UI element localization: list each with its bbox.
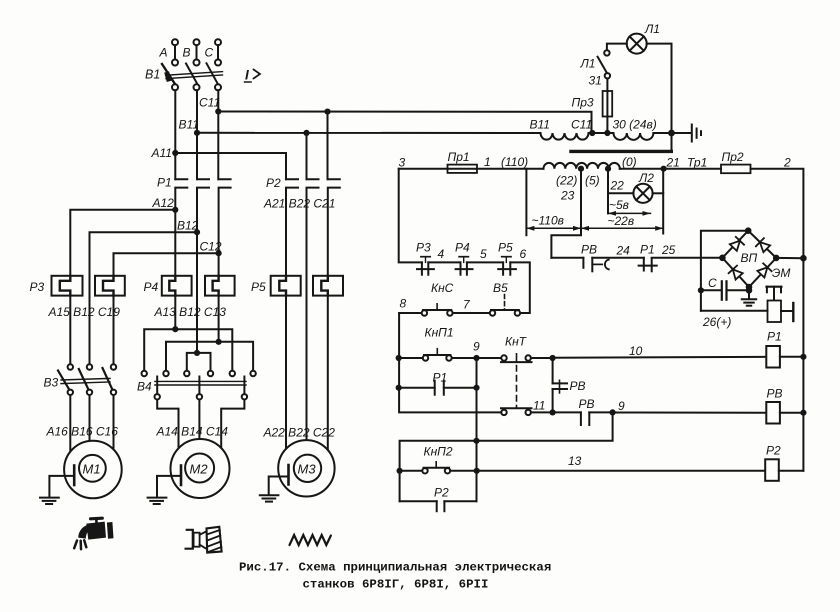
wire A22 (285, 296, 287, 450)
diode D4 lower-right (757, 263, 771, 277)
svg-text:ВП: ВП (741, 251, 758, 265)
svg-text:3: 3 (399, 156, 406, 170)
wire phase C continues (218, 253, 220, 276)
svg-text:4: 4 (438, 247, 445, 261)
diode D3 lower-left (729, 266, 743, 280)
node 24V tap C11 (589, 130, 595, 136)
wire B4 fan C (166, 342, 253, 371)
wire node 7 (453, 312, 490, 314)
switch L1 top contact (604, 50, 609, 55)
wire B12 (90, 232, 198, 364)
svg-text:М3: М3 (298, 462, 317, 477)
contact P4 (456, 257, 473, 275)
wire A16 (69, 395, 71, 452)
fuse Pr1 (448, 165, 478, 173)
contact P1 hold (399, 381, 477, 395)
wire to chassis ground (653, 132, 690, 134)
pushbutton KnP1 (423, 349, 452, 361)
wire EM to plunger (781, 310, 792, 312)
wire lamp L1 left (607, 44, 627, 51)
node 9b (610, 409, 616, 415)
wire B16 (89, 395, 91, 441)
wire left control rail lower (399, 313, 501, 412)
node bridge minus (746, 287, 753, 294)
node rail bridge (800, 255, 807, 262)
svg-text:Р2: Р2 (766, 444, 781, 458)
icon coolant tap (74, 518, 113, 549)
wire A12 (70, 210, 175, 276)
svg-text:А13 В12 С13: А13 В12 С13 (154, 305, 227, 319)
svg-text:А16 В16 С16: А16 В16 С16 (46, 425, 119, 439)
svg-text:РВ: РВ (767, 387, 783, 401)
node A12 (172, 207, 178, 213)
electromagnet EM coil (768, 301, 782, 323)
svg-text:11: 11 (533, 399, 545, 413)
svg-text:~5в: ~5в (609, 198, 629, 212)
svg-text:А: А (159, 46, 168, 60)
wire KnT lower to node 11 (531, 411, 581, 413)
wire tap 22 drop (551, 169, 581, 258)
node B4 fan B (194, 350, 200, 356)
wire C11 to transformer (218, 112, 591, 134)
thermal element P5-C (box 6) (313, 276, 343, 296)
wire C12 (114, 253, 219, 276)
winding 24V section 30 (614, 133, 654, 140)
wire KnP1 to KnT (452, 357, 502, 359)
node 9 (473, 355, 479, 361)
node 13 (474, 468, 480, 474)
lamp L2 (633, 184, 652, 203)
wire phase A vertical (174, 90, 176, 179)
capacitor C (701, 281, 749, 299)
svg-text:А12: А12 (152, 196, 175, 210)
node C12 (216, 250, 222, 256)
svg-text:РВ: РВ (579, 397, 595, 411)
relay coil P2 (765, 459, 779, 481)
switch B1 blade pole A (162, 64, 175, 84)
wire tap 110 measure drop (525, 169, 527, 236)
switch B3 linkage bar (61, 378, 110, 383)
wire secondary to right rail (751, 169, 804, 471)
node line interlock (473, 438, 479, 444)
wire phase B continues (196, 232, 198, 353)
thermal element P4-A (box 3) (162, 276, 192, 296)
wire A14 (157, 400, 178, 450)
svg-text:26(+): 26(+) (702, 315, 731, 329)
node 24V tap Pr3 (604, 130, 610, 136)
svg-text:8: 8 (400, 297, 407, 311)
wire C19 box2 to B3 (113, 296, 115, 365)
svg-text:7: 7 (463, 298, 471, 312)
node B4 fan C (216, 339, 222, 345)
svg-text:РВ: РВ (581, 243, 597, 257)
ground M2 (148, 476, 181, 504)
wire left control rail upper (399, 169, 422, 263)
wire to node 9b (589, 411, 612, 413)
node tap 22 (578, 166, 584, 172)
wire C11 drop to P2 pole C (327, 112, 329, 180)
switch B3 blades (58, 368, 112, 389)
svg-text:9: 9 (473, 340, 480, 354)
svg-text:А14 В14 С14: А14 В14 С14 (156, 425, 229, 439)
svg-text:А15 В12 С19: А15 В12 С19 (48, 305, 121, 319)
svg-text:1: 1 (484, 155, 491, 169)
contactor P1 pole A (175, 179, 187, 210)
switch B1 lower contact A (172, 84, 178, 90)
diode D1 upper-left (730, 237, 744, 251)
terminal C (215, 39, 221, 65)
svg-text:В1: В1 (145, 68, 160, 82)
node 24V right (668, 130, 675, 137)
wire lamp L2 right (653, 192, 664, 194)
svg-text:КнС: КнС (431, 281, 454, 295)
dimension arrow ~110v (526, 226, 581, 231)
svg-text:I: I (245, 68, 249, 83)
wire line 24 (592, 257, 644, 259)
wire row KnS left (399, 312, 422, 314)
wire B14 (198, 400, 200, 441)
switch B4 linkage bar (155, 381, 246, 385)
svg-text:5: 5 (480, 247, 487, 261)
svg-text:Р5: Р5 (498, 241, 513, 255)
switch B1 lower contact B (194, 84, 200, 90)
wire C22 (327, 296, 329, 451)
svg-text:21: 21 (666, 156, 680, 170)
svg-text:Р1: Р1 (640, 243, 655, 257)
wire 6 to B5 (510, 262, 530, 313)
winding Tr1 secondary (544, 163, 620, 169)
svg-text:31: 31 (589, 74, 602, 88)
svg-text:(5): (5) (585, 174, 600, 188)
svg-text:С: С (708, 276, 717, 290)
diode D2 upper-right (756, 238, 770, 252)
svg-text:10: 10 (629, 344, 643, 358)
svg-text:9: 9 (618, 399, 625, 413)
thermal element P3-A (box 1) (52, 276, 83, 296)
wire C14 (221, 400, 244, 449)
contactor P1 pole B (197, 179, 209, 232)
node rail KnP2 (397, 468, 403, 474)
node tap 5 (605, 166, 611, 172)
switch B4 upper contacts (142, 371, 256, 376)
wire B11 drop to P2 pole B (306, 133, 308, 179)
dimension arrow ~22v (581, 226, 663, 231)
ground M3 (260, 477, 289, 502)
contact P1 (639, 258, 657, 272)
wire phase C vertical (217, 90, 219, 179)
node rail row 9 (396, 355, 402, 361)
svg-text:А11: А11 (151, 146, 172, 160)
svg-text:ЭМ: ЭМ (772, 266, 790, 280)
wire between taps (589, 132, 614, 134)
contact P5 (498, 257, 516, 275)
svg-text:А22 В22 С22: А22 В22 С22 (263, 426, 336, 440)
svg-text:2: 2 (783, 156, 791, 170)
svg-text:С11: С11 (571, 118, 592, 132)
node C11 junction (215, 108, 221, 114)
wire node 9b down to line 13 loop (400, 412, 613, 501)
fuse Pr3 (603, 91, 613, 133)
wire KnP2 to node 13 (450, 470, 477, 472)
svg-text:В11: В11 (530, 118, 550, 132)
wire secondary line left (399, 168, 448, 170)
svg-text:Р2: Р2 (434, 486, 449, 500)
switch L1 blade (598, 57, 608, 74)
node rail RV (800, 410, 806, 416)
svg-text:Пр2: Пр2 (722, 150, 744, 164)
switch B4 lower contacts (155, 394, 248, 399)
wire P1 coil to rail (780, 356, 804, 358)
wire lamp L2 left (608, 192, 633, 194)
wire A15 box1 to B3 (69, 296, 71, 365)
switch B1 blade pole B (186, 64, 198, 85)
node B11 junction (194, 130, 200, 136)
motor M3 (278, 440, 334, 496)
transformer Tr1 core (571, 150, 671, 153)
wire tap 21 drop (662, 169, 664, 234)
wire phase A continues (174, 210, 176, 276)
contact RV time-delay (583, 258, 608, 272)
svg-text:Р3: Р3 (416, 241, 431, 255)
pushbutton KnT lower (501, 406, 532, 416)
overcurrent release symbol I> (245, 68, 261, 83)
node 11 (550, 409, 556, 415)
wire row KnP2 left (400, 470, 423, 472)
svg-text:М1: М1 (83, 462, 101, 477)
wire B11 to transformer (197, 132, 541, 134)
pushbutton KnP2 (422, 462, 450, 474)
svg-text:КнП1: КнП1 (425, 326, 454, 340)
pushbutton KnT upper (501, 354, 532, 405)
wire line 13 (477, 470, 766, 472)
svg-text:(0): (0) (622, 155, 637, 169)
svg-text:С11: С11 (199, 96, 220, 110)
wire 26(+) (701, 310, 768, 312)
svg-text:30 (24в): 30 (24в) (613, 118, 657, 132)
relay coil P1 (766, 346, 780, 368)
wire secondary right (620, 168, 721, 170)
contactor P2 pole C (328, 179, 340, 276)
svg-text:РВ: РВ (570, 379, 586, 393)
node rail P1 hold (396, 385, 402, 391)
fuse Pr2 (721, 165, 751, 174)
wire switch to fuse (606, 79, 608, 92)
ground M1 (40, 476, 74, 504)
svg-text:Тр1: Тр1 (687, 156, 707, 170)
EM plunger bar (792, 303, 794, 321)
svg-text:С: С (205, 46, 214, 60)
contact RV break (581, 412, 589, 425)
svg-text:24: 24 (616, 244, 631, 258)
svg-text:6: 6 (520, 247, 527, 261)
wire KnT to node 10 (531, 357, 553, 359)
node B11 to P2 (303, 130, 309, 136)
contact P3 (417, 257, 434, 275)
wire P2 coil to rail (779, 470, 804, 472)
dimension arrow ~5v (608, 211, 651, 216)
wire line 9 (613, 412, 767, 414)
wire line 10 (553, 357, 767, 358)
switch L1 bottom contact (605, 73, 610, 78)
svg-text:Р4: Р4 (455, 241, 470, 255)
terminal A (172, 39, 178, 65)
icon milling cutter (186, 527, 222, 553)
svg-text:Л1: Л1 (644, 22, 660, 36)
wire fuse to winding (477, 168, 544, 170)
svg-text:Рис.17. Схема принципиальная э: Рис.17. Схема принципиальная электрическ… (239, 561, 551, 575)
wire A11 to P2 pole A (175, 153, 286, 179)
svg-text:13: 13 (568, 454, 582, 468)
wire A13 to B4 (174, 296, 176, 330)
earth ground bridge (742, 290, 756, 305)
wire line 24 left (551, 257, 583, 259)
terminal B (194, 39, 200, 65)
svg-text:станков 6Р8IГ, 6Р8I, 6РII: станков 6Р8IГ, 6Р8I, 6РII (303, 578, 489, 592)
svg-text:Пр3: Пр3 (572, 96, 594, 110)
svg-text:Р2: Р2 (266, 176, 281, 190)
relay RV winding (553, 358, 567, 413)
svg-text:Р1: Р1 (157, 176, 172, 190)
electromagnet EM armature (767, 287, 782, 301)
node C left (698, 287, 704, 293)
node rail P1 (800, 354, 806, 360)
svg-text:КнП2: КнП2 (424, 445, 453, 459)
thermal element P5-A (box 5) (271, 276, 301, 296)
svg-text:А21 В22 С21: А21 В22 С21 (263, 197, 335, 211)
svg-text:В3: В3 (44, 376, 59, 390)
node C11 to P2 (324, 109, 330, 115)
svg-text:В5: В5 (493, 281, 508, 295)
wire tap 5 drop to lamp L2 (607, 169, 609, 214)
thermal element P4-C (box 4) (205, 276, 235, 296)
contactor P1 pole C (219, 179, 231, 253)
wire C16 (113, 395, 115, 450)
wire line 25 (652, 257, 723, 259)
motor M2 (171, 439, 230, 498)
svg-text:В4: В4 (137, 380, 152, 394)
svg-text:23: 23 (560, 189, 575, 203)
svg-text:КнТ: КнТ (505, 335, 528, 349)
switch B4 blades (157, 377, 244, 395)
wire B4 fan B (187, 353, 211, 371)
svg-text:(110): (110) (501, 155, 528, 169)
node 10 left (550, 355, 556, 361)
switch B1 blade pole C (207, 63, 219, 84)
svg-text:Р1: Р1 (767, 330, 782, 344)
contactor P2 pole A (286, 179, 298, 276)
lamp L1 (627, 34, 647, 54)
relay coil RV (766, 402, 780, 424)
svg-text:(22): (22) (556, 174, 577, 188)
motor M1 (64, 441, 122, 499)
svg-text:Р4: Р4 (144, 280, 159, 294)
node P1 hold right (473, 385, 479, 391)
contactor P2 pole B (307, 179, 319, 442)
svg-text:В11: В11 (179, 118, 199, 132)
wire phase B vertical (196, 90, 198, 179)
wire vertical node9 chain (476, 358, 478, 501)
rectifier VP bridge (719, 227, 779, 290)
svg-text:~22в: ~22в (608, 214, 635, 228)
node B12 (194, 229, 200, 235)
wire RV coil to rail (780, 412, 804, 414)
svg-text:Р5: Р5 (251, 280, 266, 294)
svg-text:~110в: ~110в (532, 214, 564, 228)
winding 24V section B11-C11 (541, 133, 589, 140)
svg-text:В: В (183, 46, 191, 60)
wire lamp L1 right (647, 44, 672, 151)
contact P2 hold (400, 501, 477, 511)
wire bridge right to rail (776, 257, 803, 259)
node B4 fan A (172, 326, 178, 332)
pushbutton KnS (422, 304, 453, 316)
node A11 junction (172, 150, 178, 156)
switch B1 lower contact C (215, 84, 221, 90)
wire 4 (428, 261, 460, 263)
node tap 21 (661, 166, 667, 172)
wire B4 fan A (144, 329, 232, 371)
wire row KnP1 left (399, 357, 423, 359)
wire 5 (467, 261, 503, 263)
svg-text:Пр1: Пр1 (448, 150, 470, 164)
switch B3 lower contacts (68, 390, 117, 395)
switch B1 linkage bar (166, 72, 223, 79)
wire C13 to B4 (218, 296, 220, 342)
switch B5 (490, 295, 520, 316)
switch B3 upper contacts (68, 364, 117, 369)
svg-text:25: 25 (661, 243, 676, 257)
thermal element P3-C (box 2) (95, 276, 125, 296)
wire bridge top to left rail (701, 231, 748, 311)
icon spring (290, 535, 331, 545)
svg-text:Р3: Р3 (30, 280, 45, 294)
svg-text:Л1: Л1 (580, 57, 596, 71)
chassis ground (692, 125, 701, 142)
svg-text:Л2: Л2 (638, 171, 654, 185)
svg-text:М2: М2 (190, 462, 209, 477)
svg-text:22: 22 (610, 179, 625, 193)
